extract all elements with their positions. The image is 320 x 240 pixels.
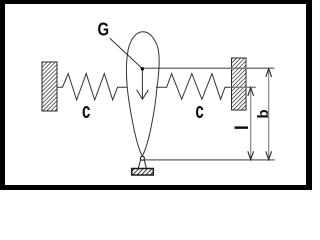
gravity arrow [137,71,149,100]
svg-text:c: c [82,98,90,123]
dimension line l [248,87,254,160]
svg-text:b: b [255,109,272,118]
ground bar (hatched) [132,169,154,176]
horizontal reference line at G level [144,67,274,69]
leader line from G [110,38,142,68]
pivot legs [138,160,146,169]
pendulum body (teardrop) [126,32,159,156]
center of gravity dot [141,67,145,71]
left wall (hatched) [42,62,57,111]
svg-text:l: l [232,125,252,130]
pivot circle [140,156,144,160]
svg-text:c: c [195,98,203,123]
svg-text:G: G [98,19,110,40]
right spring c [156,74,232,100]
border frame [0,0,312,190]
bottom reference line at pivot level [145,159,275,161]
horizontal reference line at spring level (right) [232,86,256,88]
left spring c [57,74,127,100]
dimension line b [266,68,272,160]
right wall (hatched) [232,58,247,110]
